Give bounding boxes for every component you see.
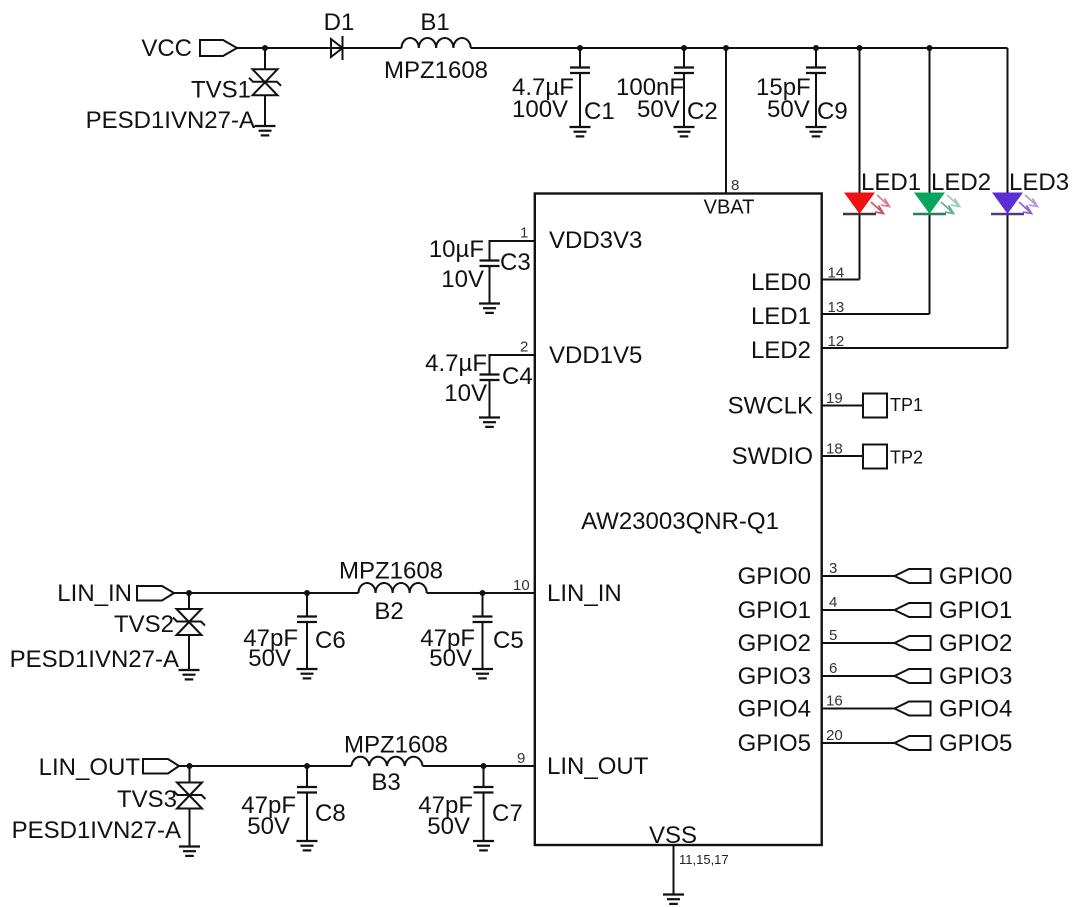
- svg-text:LED0: LED0: [751, 269, 811, 296]
- node VBAT junction: [723, 45, 729, 51]
- connector VCC: [141, 35, 237, 62]
- ground C7: [473, 841, 494, 850]
- svg-text:100V: 100V: [512, 96, 568, 123]
- wire LIN_OUT row: [179, 765, 535, 767]
- svg-text:LIN_OUT: LIN_OUT: [39, 754, 141, 781]
- svg-text:13: 13: [828, 299, 845, 316]
- capacitor C8: [241, 766, 345, 841]
- svg-text:C7: C7: [492, 800, 523, 827]
- node C1 junction: [577, 45, 583, 51]
- svg-text:6: 6: [829, 660, 837, 677]
- svg-text:50V: 50V: [248, 645, 291, 672]
- connector GPIO3: [895, 663, 1013, 690]
- svg-text:GPIO1: GPIO1: [939, 597, 1012, 624]
- svg-text:10: 10: [513, 577, 530, 594]
- inductor B1: [384, 9, 488, 84]
- wire pin 5 GPIO2: [822, 627, 895, 644]
- ground C1: [570, 127, 591, 136]
- svg-text:20: 20: [826, 727, 843, 744]
- wire pin 18 SWDIO: [822, 441, 863, 458]
- wire pin 13 LED1: [822, 299, 930, 316]
- ground VSS: [663, 895, 684, 904]
- svg-text:14: 14: [828, 265, 845, 282]
- wire pin 16 GPIO4: [822, 693, 895, 710]
- node VCC junction: [262, 45, 268, 51]
- wire pin 14 LED0: [822, 265, 860, 282]
- svg-text:LED2: LED2: [931, 169, 991, 196]
- inductor B3: [344, 732, 448, 797]
- svg-text:B1: B1: [420, 9, 449, 36]
- connector LIN_IN: [57, 580, 174, 607]
- svg-text:GPIO2: GPIO2: [738, 630, 811, 657]
- svg-text:GPIO5: GPIO5: [939, 730, 1012, 757]
- capacitor C5: [420, 593, 523, 672]
- svg-text:C3: C3: [500, 249, 531, 276]
- svg-text:2: 2: [520, 339, 528, 356]
- node TVS3 junction: [187, 763, 193, 769]
- svg-text:16: 16: [826, 693, 843, 710]
- svg-text:8: 8: [731, 177, 739, 194]
- ground C6: [297, 669, 318, 678]
- wire pin 4 GPIO1: [822, 594, 895, 611]
- wire pin 19 SWCLK: [822, 390, 863, 407]
- capacitor C6: [243, 593, 345, 672]
- svg-text:50V: 50V: [427, 813, 470, 840]
- svg-text:SWCLK: SWCLK: [728, 393, 813, 420]
- svg-text:18: 18: [826, 441, 843, 458]
- wire pin 6 GPIO3: [822, 660, 895, 677]
- svg-text:5: 5: [829, 627, 837, 644]
- svg-text:TVS3: TVS3: [117, 786, 177, 813]
- ground C3: [479, 304, 500, 313]
- svg-text:50V: 50V: [247, 813, 290, 840]
- svg-text:LED1: LED1: [861, 169, 921, 196]
- ground C9: [806, 127, 827, 136]
- ground C2: [674, 127, 695, 136]
- svg-text:PESD1IVN27-A: PESD1IVN27-A: [12, 817, 181, 844]
- svg-text:4: 4: [829, 594, 837, 611]
- connector GPIO5: [895, 730, 1013, 757]
- ground TVS2: [179, 670, 200, 679]
- svg-text:10V: 10V: [441, 266, 484, 293]
- LED LED1 red: [843, 48, 921, 280]
- ground C5: [472, 669, 493, 678]
- ground C8: [297, 841, 318, 850]
- svg-text:TVS2: TVS2: [114, 611, 174, 638]
- svg-text:VDD1V5: VDD1V5: [549, 342, 642, 369]
- wire pin 3 GPIO0: [822, 560, 895, 577]
- svg-text:LIN_IN: LIN_IN: [547, 580, 622, 607]
- svg-text:C5: C5: [493, 627, 524, 654]
- svg-text:LED1: LED1: [751, 303, 811, 330]
- node C7 junction: [481, 763, 487, 769]
- test point TP2: [863, 445, 923, 469]
- wire VSS pins 11,15,17: [674, 845, 729, 895]
- svg-text:C9: C9: [817, 98, 848, 125]
- TVS3: [12, 766, 206, 847]
- capacitor C9: [756, 48, 848, 127]
- svg-text:GPIO3: GPIO3: [939, 663, 1012, 690]
- node C2 junction: [681, 45, 687, 51]
- svg-text:3: 3: [829, 560, 837, 577]
- wire top VBAT rail: [237, 47, 1008, 49]
- svg-text:GPIO4: GPIO4: [738, 696, 811, 723]
- svg-text:C1: C1: [584, 98, 615, 125]
- svg-text:MPZ1608: MPZ1608: [339, 558, 443, 585]
- wire LIN_IN row: [174, 592, 535, 594]
- svg-text:LIN_OUT: LIN_OUT: [547, 753, 649, 780]
- svg-text:B2: B2: [374, 598, 403, 625]
- svg-text:GPIO1: GPIO1: [738, 597, 811, 624]
- connector GPIO4: [895, 696, 1013, 723]
- svg-text:C2: C2: [687, 98, 718, 125]
- capacitor C2: [616, 48, 718, 127]
- connector GPIO2: [895, 630, 1013, 657]
- ground C4: [479, 418, 500, 427]
- svg-text:GPIO0: GPIO0: [939, 563, 1012, 590]
- svg-text:SWDIO: SWDIO: [732, 443, 813, 470]
- capacitor C1: [512, 48, 615, 127]
- svg-text:19: 19: [826, 390, 843, 407]
- svg-text:TVS1: TVS1: [191, 77, 251, 104]
- svg-text:GPIO3: GPIO3: [738, 663, 811, 690]
- capacitor C4: [425, 339, 535, 418]
- svg-text:10µF: 10µF: [429, 236, 484, 263]
- svg-text:GPIO0: GPIO0: [738, 563, 811, 590]
- svg-text:VBAT: VBAT: [704, 197, 755, 219]
- svg-text:C8: C8: [315, 800, 346, 827]
- diode D1: [324, 9, 355, 60]
- wire pin 8 VBAT: [726, 48, 739, 194]
- svg-text:VDD3V3: VDD3V3: [549, 227, 642, 254]
- svg-text:TP1: TP1: [890, 395, 923, 415]
- ground TVS1: [255, 126, 276, 135]
- wire pin 12 LED2: [822, 333, 1008, 350]
- connector GPIO0: [895, 563, 1013, 590]
- node LED1 junction: [857, 45, 863, 51]
- svg-text:GPIO5: GPIO5: [738, 730, 811, 757]
- svg-text:LED3: LED3: [1009, 169, 1069, 196]
- svg-text:4.7µF: 4.7µF: [425, 350, 487, 377]
- connector GPIO1: [895, 597, 1013, 624]
- svg-text:GPIO2: GPIO2: [939, 630, 1012, 657]
- svg-text:C6: C6: [315, 627, 346, 654]
- op-amp U1 AW23003QNR-Q1 box: [535, 194, 822, 850]
- svg-text:12: 12: [828, 333, 845, 350]
- svg-text:GPIO4: GPIO4: [939, 696, 1012, 723]
- svg-text:D1: D1: [324, 9, 355, 36]
- inductor B2: [339, 558, 443, 626]
- svg-text:AW23003QNR-Q1: AW23003QNR-Q1: [581, 508, 779, 535]
- ground TVS3: [179, 847, 200, 856]
- test point TP1: [863, 394, 923, 418]
- svg-text:PESD1IVN27-A: PESD1IVN27-A: [86, 107, 255, 134]
- node C8 junction: [304, 763, 310, 769]
- svg-text:50V: 50V: [767, 96, 810, 123]
- svg-text:C4: C4: [502, 363, 533, 390]
- node C5 junction: [480, 590, 486, 596]
- svg-text:VSS: VSS: [649, 822, 697, 849]
- node LED2 junction: [927, 45, 933, 51]
- connector LIN_OUT: [39, 754, 179, 781]
- svg-text:LIN_IN: LIN_IN: [57, 580, 132, 607]
- svg-text:11,15,17: 11,15,17: [679, 852, 729, 867]
- svg-text:50V: 50V: [637, 96, 680, 123]
- LED LED2 green: [913, 48, 991, 314]
- svg-text:MPZ1608: MPZ1608: [344, 732, 448, 759]
- node C6 junction: [304, 590, 310, 596]
- TVS2: [10, 593, 205, 673]
- capacitor C7: [418, 766, 522, 841]
- svg-text:1: 1: [520, 225, 528, 242]
- svg-text:PESD1IVN27-A: PESD1IVN27-A: [10, 646, 179, 673]
- capacitor C3: [429, 225, 535, 304]
- svg-text:B3: B3: [371, 769, 400, 796]
- wire pin 20 GPIO5: [822, 727, 895, 744]
- TVS1: [86, 48, 281, 134]
- svg-text:TP2: TP2: [890, 448, 923, 468]
- svg-text:VCC: VCC: [141, 35, 192, 62]
- svg-text:9: 9: [517, 750, 525, 767]
- svg-text:LED2: LED2: [751, 337, 811, 364]
- LED LED3 purple: [991, 48, 1069, 348]
- node C9 junction: [813, 45, 819, 51]
- svg-text:MPZ1608: MPZ1608: [384, 57, 488, 84]
- svg-text:50V: 50V: [429, 645, 472, 672]
- svg-text:10V: 10V: [444, 380, 487, 407]
- node TVS2 junction: [186, 590, 192, 596]
